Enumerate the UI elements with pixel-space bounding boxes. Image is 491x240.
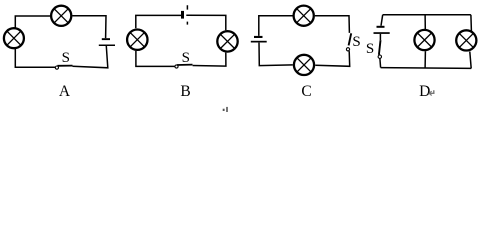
battery B1 thick plate (A right side) xyxy=(102,38,110,40)
lamp L8 (D right branch) xyxy=(456,30,476,50)
switch S blade (C) xyxy=(349,33,352,45)
battery B4 long plate xyxy=(374,32,390,34)
wire C top-left segment xyxy=(259,16,293,36)
switch S blade (D) xyxy=(379,40,381,55)
battery B3 long plate (C left) xyxy=(251,41,267,43)
wire A bottom-left segment xyxy=(15,49,55,68)
wire D right side lower xyxy=(470,52,471,69)
switch S pivot (B) xyxy=(175,65,178,68)
wire A top-right segment xyxy=(72,16,106,39)
battery B2 thick plate (B top) xyxy=(181,11,184,19)
wire D middle branch upper xyxy=(424,15,426,29)
wire D below battery xyxy=(379,34,381,40)
lamp L7 (D middle branch) xyxy=(414,30,434,50)
wire D left lower stub xyxy=(379,59,382,68)
svg-text:D: D xyxy=(419,83,430,100)
paragraph return mark after D xyxy=(429,90,434,95)
svg-text:B: B xyxy=(180,83,190,100)
svg-text:S: S xyxy=(352,34,360,50)
switch S pivot (A) xyxy=(55,66,58,69)
wire C bottom-left segment xyxy=(259,43,293,66)
lamp L1 (top of A) xyxy=(51,6,71,26)
svg-text:C: C xyxy=(301,83,311,100)
battery B3 thick plate xyxy=(254,36,263,38)
battery B2 long plate (dashed) xyxy=(186,5,188,24)
wire A right-lower segment xyxy=(73,46,108,68)
stray text fragment at bottom edge xyxy=(223,107,228,112)
wire D bottom rail xyxy=(381,67,472,70)
battery B1 long plate xyxy=(99,45,115,47)
wire D right side upper xyxy=(470,15,473,31)
lamp L6 (bottom of C) xyxy=(294,55,314,75)
wire D middle branch lower xyxy=(424,51,426,68)
wire B top-left segment xyxy=(136,15,181,28)
wire C top-right segment xyxy=(315,16,350,33)
switch S pivot (C) xyxy=(346,48,349,51)
lamp L4 (right of B) xyxy=(217,31,237,51)
svg-text:S: S xyxy=(62,50,70,66)
wire B top-right segment xyxy=(186,15,226,30)
switch S blade (A) xyxy=(57,65,72,67)
wire D top rail xyxy=(383,14,471,16)
svg-text:S: S xyxy=(182,50,190,66)
svg-text:A: A xyxy=(59,83,71,100)
wire B right-lower segment xyxy=(193,53,226,67)
lamp L3 (left of B) xyxy=(127,30,147,50)
wire B bottom-left segment xyxy=(136,51,175,66)
lamp L5 (top of C) xyxy=(294,6,314,26)
switch S blade (B) xyxy=(177,64,193,66)
battery B4 thick plate (D left) xyxy=(377,26,385,28)
svg-text:S: S xyxy=(366,41,374,57)
wire C right-lower segment xyxy=(315,51,349,66)
lamp L2 (left of A) xyxy=(4,28,24,48)
wire A top-left segment xyxy=(15,16,50,28)
switch S pivot (D) xyxy=(378,55,381,58)
wire D left upper stub xyxy=(381,15,383,26)
